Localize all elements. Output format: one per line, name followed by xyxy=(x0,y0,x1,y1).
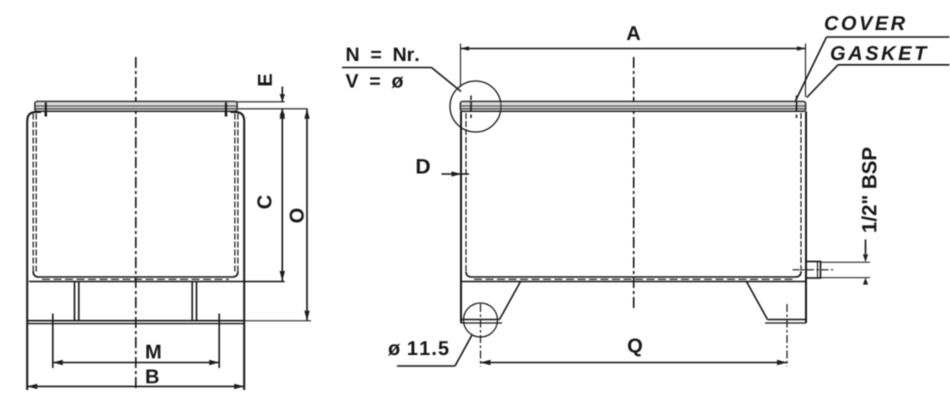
left view centerline xyxy=(135,57,137,391)
leader COVER xyxy=(796,37,950,101)
label C xyxy=(257,195,271,208)
right view centerline xyxy=(633,57,635,309)
label GASKET xyxy=(831,46,928,60)
right view foot right xyxy=(747,282,807,324)
right view wall left xyxy=(461,112,466,324)
left view inner wall right (hidden) xyxy=(234,114,236,272)
leader GASKET xyxy=(807,65,950,98)
leader N/V xyxy=(342,68,461,92)
drain plug xyxy=(806,262,821,279)
foot hole centerline right xyxy=(786,304,788,367)
O witness bottom xyxy=(244,320,311,322)
label COVER xyxy=(825,16,905,30)
right view cover xyxy=(461,102,806,112)
dimension A xyxy=(461,44,806,98)
label B xyxy=(146,370,158,384)
label O xyxy=(290,209,304,223)
drain centerline xyxy=(793,269,834,271)
left view leg left xyxy=(75,282,79,321)
dimension E xyxy=(280,87,285,116)
label M xyxy=(146,345,160,359)
left view screw left xyxy=(45,103,48,117)
left view cover xyxy=(35,102,237,112)
label A xyxy=(627,26,640,40)
right view wall right xyxy=(801,112,806,324)
right view screw right xyxy=(796,96,798,119)
label D xyxy=(417,159,430,173)
dimension O xyxy=(304,109,309,321)
dimension D arrow xyxy=(442,171,470,176)
right view screw left xyxy=(470,96,472,119)
dimension B xyxy=(27,384,244,389)
leader ø 11.5 xyxy=(397,335,472,366)
label E xyxy=(258,74,272,85)
detail circle cover corner xyxy=(450,81,501,132)
foot hole centerline left xyxy=(480,304,482,367)
left view tank bottom xyxy=(29,272,285,282)
label 1/2" BSP xyxy=(861,148,876,232)
left view screw right xyxy=(225,103,228,117)
right view foot left xyxy=(461,282,521,324)
left view tank outer wall right xyxy=(231,112,245,390)
label ø 11.5 xyxy=(388,341,449,355)
left view base rail xyxy=(27,321,244,324)
left view leg right xyxy=(192,282,196,321)
right view tank bottom xyxy=(462,272,805,282)
dimension M xyxy=(53,314,219,369)
detail circle foot hole xyxy=(464,303,498,337)
left view tank outer wall left xyxy=(27,112,41,390)
drain dimension xyxy=(821,240,871,285)
dimension C xyxy=(280,109,285,281)
dimension E witness lines xyxy=(237,101,285,103)
dimension Q xyxy=(481,360,788,365)
label N = Nr. / V = ø xyxy=(346,48,419,88)
left view inner wall left (hidden) xyxy=(32,114,34,272)
label Q xyxy=(628,339,642,357)
